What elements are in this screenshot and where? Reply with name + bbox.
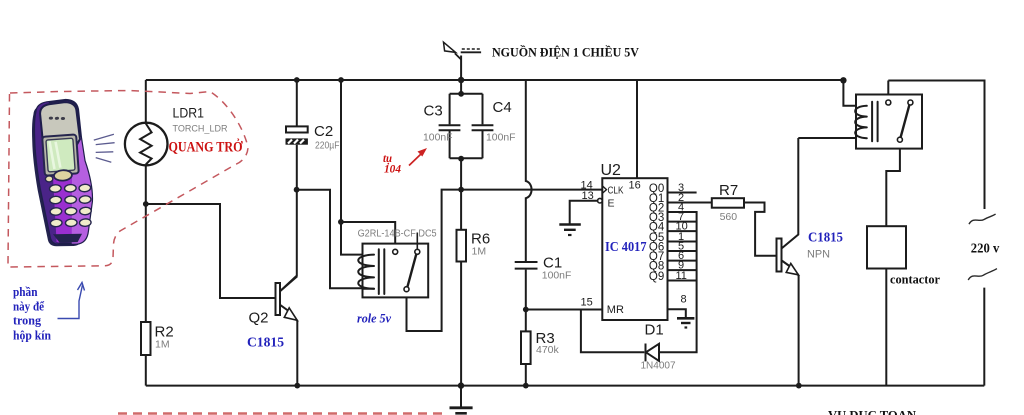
svg-text:VU DUC TOAN: VU DUC TOAN (828, 408, 917, 415)
svg-text:16: 16 (629, 179, 641, 191)
svg-text:contactor: contactor (890, 272, 940, 287)
svg-text:220 v: 220 v (971, 241, 1000, 256)
svg-text:15: 15 (581, 296, 593, 308)
svg-text:hộp kín: hộp kín (13, 328, 52, 343)
svg-text:1N4007: 1N4007 (641, 361, 676, 372)
svg-text:100nF: 100nF (542, 270, 572, 281)
svg-text:C1815: C1815 (808, 230, 843, 245)
svg-text:C1815: C1815 (247, 335, 284, 350)
svg-text:100nF: 100nF (486, 133, 516, 144)
svg-text:role 5v: role 5v (357, 311, 391, 326)
svg-text:NGUỒN ĐIỆN 1 CHIỀU 5V: NGUỒN ĐIỆN 1 CHIỀU 5V (492, 45, 640, 60)
svg-text:C2: C2 (314, 123, 333, 140)
svg-text:phần: phần (13, 284, 38, 299)
svg-text:MR: MR (607, 304, 624, 316)
svg-text:470k: 470k (536, 344, 560, 356)
svg-text:trong: trong (13, 313, 41, 328)
svg-text:220µF: 220µF (315, 141, 340, 152)
svg-text:R7: R7 (719, 182, 738, 199)
svg-text:13: 13 (582, 190, 594, 202)
svg-text:D1: D1 (645, 321, 664, 338)
svg-text:560: 560 (720, 211, 738, 223)
svg-text:CLK: CLK (608, 185, 624, 197)
svg-text:104: 104 (384, 164, 401, 176)
svg-text:NPN: NPN (807, 249, 830, 261)
svg-text:Q2: Q2 (249, 309, 269, 326)
svg-text:E: E (608, 198, 615, 210)
svg-text:1M: 1M (472, 245, 487, 257)
svg-text:U2: U2 (601, 162, 622, 179)
svg-text:G2RL-14B-CF DC5: G2RL-14B-CF DC5 (358, 228, 438, 239)
svg-text:Q9: Q9 (649, 271, 664, 283)
svg-text:này để: này để (13, 299, 45, 314)
svg-text:LDR1: LDR1 (173, 106, 205, 121)
svg-text:C4: C4 (493, 99, 512, 116)
svg-text:11: 11 (676, 270, 687, 282)
svg-text:100nF: 100nF (423, 133, 453, 144)
svg-text:QUANG TRỞ: QUANG TRỞ (169, 139, 243, 156)
svg-text:C1: C1 (543, 255, 562, 272)
svg-text:8: 8 (681, 293, 687, 305)
svg-text:1M: 1M (155, 338, 170, 350)
svg-text:C3: C3 (424, 103, 443, 120)
svg-text:TORCH_LDR: TORCH_LDR (173, 124, 228, 135)
svg-text:IC 4017: IC 4017 (605, 240, 647, 255)
